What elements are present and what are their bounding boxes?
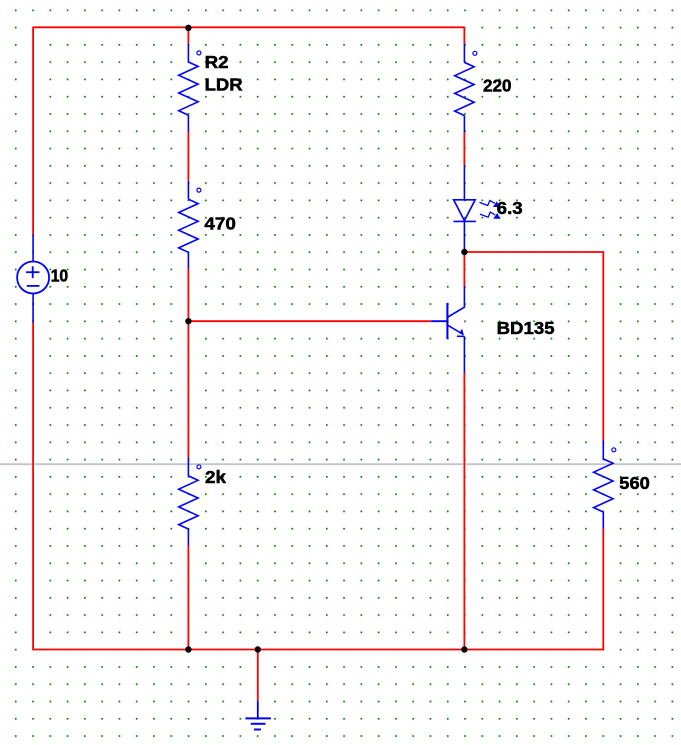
wire: top rail to 220	[463, 27, 465, 44]
wire: top rail to R2	[187, 27, 189, 43]
node dot: bottom rail / ground tap	[255, 646, 261, 652]
wire: base wire (node B to Q1 base)	[188, 320, 431, 322]
LED light arrow 1	[480, 200, 500, 207]
LED light arrow 2	[480, 212, 500, 219]
wire: top rail	[33, 26, 464, 28]
svg-text:R2: R2	[205, 52, 229, 72]
svg-text:10: 10	[51, 266, 69, 286]
wire: 2k to bottom rail	[187, 546, 189, 650]
svg-text:220: 220	[483, 76, 512, 96]
svg-text:2k: 2k	[205, 467, 226, 487]
ground	[245, 701, 271, 729]
svg-text:470: 470	[204, 214, 236, 234]
wire: 470 to node B	[187, 269, 189, 321]
wire: left vertical lower (V1 bottom pin to bottom rail)	[32, 323, 34, 651]
resistor 2k	[179, 458, 201, 546]
svg-text:BD135: BD135	[497, 318, 555, 338]
wire halos (background erase)	[33, 27, 603, 702]
node dot: bottom rail / emitter	[461, 646, 467, 652]
resistor R2 (LDR)	[179, 44, 201, 132]
wire: left vertical upper (to V1 top pin)	[32, 27, 34, 235]
transistor Q1 BD135	[431, 287, 464, 373]
wire: Q1 emitter to bottom rail	[463, 373, 465, 650]
wire: bottom rail	[33, 649, 603, 651]
svg-text:560: 560	[619, 473, 650, 493]
svg-text:LDR: LDR	[205, 75, 243, 95]
sheet boundary gray line	[0, 463, 681, 465]
node dot: top rail / R2	[185, 25, 191, 31]
voltage source V1	[17, 235, 49, 323]
wire: 560 to bottom rail	[602, 529, 604, 651]
resistor 560	[594, 441, 616, 529]
node dot: node B (470/2k/base)	[185, 318, 191, 324]
wire: node C to right branch	[464, 251, 603, 253]
wire: 220 to LED anode	[463, 132, 465, 165]
wire: right vertical (to 560 top)	[602, 251, 604, 440]
node dot: node C (LED cathode / collector / right branch)	[461, 249, 467, 255]
wire: node B to 2k	[187, 321, 189, 457]
wire: ground tap	[257, 650, 259, 702]
wire: R2 to 470	[187, 132, 189, 181]
svg-text:6.3: 6.3	[497, 198, 523, 218]
resistor 220	[455, 44, 477, 132]
wire: LED cathode node down to Q1 collector	[463, 252, 465, 287]
LED D1	[453, 165, 476, 249]
node dot: bottom rail / 2k	[185, 646, 191, 652]
resistor 470	[179, 181, 201, 269]
